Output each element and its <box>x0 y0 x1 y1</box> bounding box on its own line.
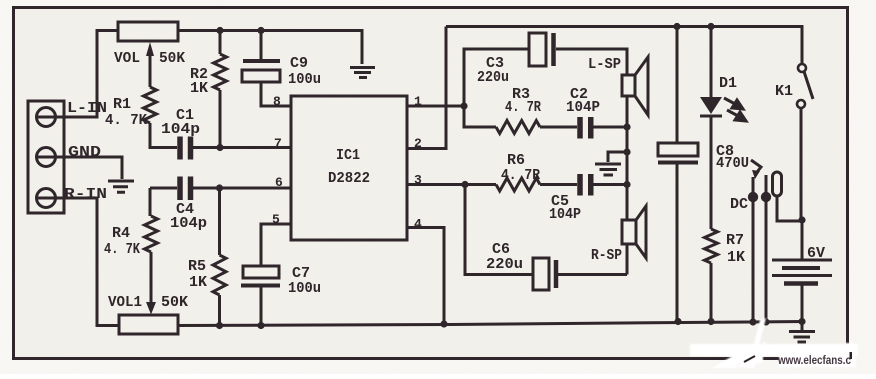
svg-text:www.elecfans.c: www.elecfans.c <box>777 355 851 367</box>
